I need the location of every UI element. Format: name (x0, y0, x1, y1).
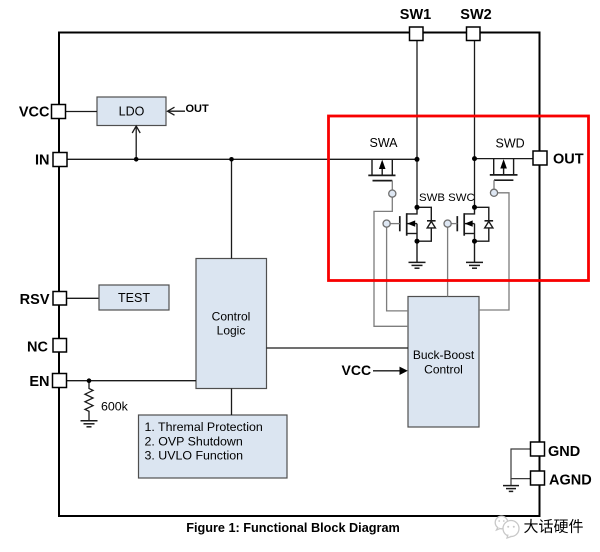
svg-text:NC: NC (27, 339, 48, 355)
gate wire SWC to Buck-Boost (451, 223, 457, 225)
wire SW2 (474, 41, 476, 208)
svg-text:SWA: SWA (370, 136, 399, 150)
watermark logo (495, 516, 519, 538)
pin OUT (533, 151, 547, 165)
ground (EN resistor) (81, 421, 98, 427)
wire Control Logic to Buck-Boost (267, 347, 409, 349)
gate bubble SWB (383, 220, 390, 227)
wire VCC arrow into Buck-Boost (373, 370, 400, 372)
body diode SWC (475, 207, 494, 241)
svg-text:VCC: VCC (342, 362, 372, 378)
svg-text:大话硬件: 大话硬件 (524, 519, 584, 536)
svg-text:VCC: VCC (19, 105, 50, 121)
svg-text:OUT: OUT (186, 103, 210, 115)
wire VCC pin to LDO (66, 111, 98, 113)
svg-text:OUT: OUT (553, 152, 584, 168)
pin RSV (53, 292, 67, 306)
pin GND (531, 442, 545, 456)
protection note block (139, 415, 288, 478)
Control Logic block (196, 259, 267, 389)
svg-text:Logic: Logic (217, 324, 246, 338)
gate wire SWB to Buck-Boost (390, 223, 400, 225)
wire GND/AGND to ground (511, 449, 531, 479)
pin VCC (52, 105, 66, 119)
resistor R1 600k (85, 381, 93, 421)
wire EN to Control Logic (67, 380, 197, 382)
gate bubble SWD (490, 189, 497, 196)
pin SW1 (410, 27, 424, 41)
wire IN rail (67, 158, 417, 160)
svg-text:EN: EN (29, 374, 49, 390)
wire Control Logic bottom to note (231, 389, 233, 416)
transistor SWB (400, 207, 417, 262)
transistor SWA (368, 159, 395, 180)
svg-text:Figure 1: Functional Block Dia: Figure 1: Functional Block Diagram (186, 521, 400, 535)
svg-text:SWD: SWD (496, 137, 525, 151)
ground (AGND) (503, 486, 519, 492)
Buck-Boost Control block (408, 297, 479, 428)
svg-text:SW2: SW2 (460, 7, 491, 23)
transistor SWD (490, 159, 518, 181)
svg-text:3. UVLO Function: 3. UVLO Function (145, 449, 244, 463)
wire SW1 (416, 41, 418, 208)
LDO U1 (97, 97, 166, 126)
wire Control Logic top (231, 159, 233, 258)
TEST block (99, 285, 169, 310)
pin SW2 (467, 27, 481, 41)
gate bubble SWA (389, 190, 396, 197)
gate wire SWA to Buck-Boost (391, 181, 393, 190)
pin AGND (531, 471, 545, 485)
svg-text:SW1: SW1 (400, 7, 431, 23)
svg-text:Buck-Boost: Buck-Boost (413, 348, 475, 362)
svg-text:Control: Control (212, 310, 251, 324)
svg-text:IN: IN (35, 152, 50, 168)
gate bubble SWC (444, 220, 451, 227)
node junction dots (87, 156, 477, 383)
wire LDO feedback arrow up (132, 126, 140, 159)
body diode SWB (417, 207, 436, 241)
svg-text:Control: Control (424, 363, 463, 377)
pin EN (53, 374, 67, 388)
svg-text:GND: GND (548, 444, 580, 460)
svg-text:AGND: AGND (549, 473, 592, 489)
svg-text:SWB SWC: SWB SWC (419, 192, 475, 204)
wire RSV to TEST (67, 297, 100, 299)
svg-text:2. OVP Shutdown: 2. OVP Shutdown (145, 434, 243, 448)
red highlight box (power stage) (329, 116, 589, 281)
pin IN (53, 153, 67, 167)
gate wire SWD to Buck-Boost (493, 180, 495, 189)
wire SWD to OUT pin (475, 158, 534, 160)
wire LDO OUT arrow (168, 107, 186, 115)
svg-text:LDO: LDO (119, 105, 145, 119)
svg-text:RSV: RSV (20, 292, 50, 308)
svg-text:600k: 600k (101, 400, 129, 414)
pin NC (53, 339, 67, 353)
ground (SWC source) (466, 262, 483, 268)
svg-text:1. Thremal Protection: 1. Thremal Protection (145, 420, 263, 434)
transistor SWC (457, 207, 474, 262)
IC boundary (59, 33, 540, 517)
svg-text:TEST: TEST (118, 291, 150, 305)
ground (SWB source) (409, 262, 426, 268)
